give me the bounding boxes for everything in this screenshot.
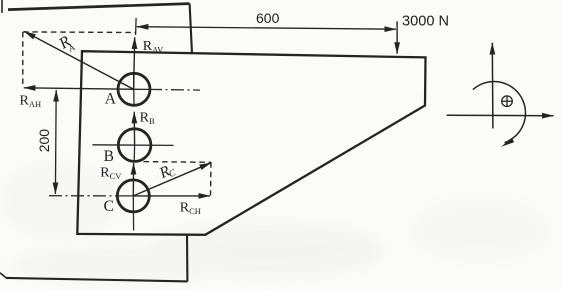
force arrow R_CV [132, 163, 134, 196]
force arrow R_AH [24, 88, 134, 90]
dashed rectangle C top [144, 161, 212, 164]
dashed rectangle A left [22, 32, 24, 87]
page edge tick top-left [1, 0, 3, 13]
svg-text:200: 200 [36, 129, 52, 153]
svg-text:B: B [104, 148, 114, 165]
sign convention vertical axis arrow [491, 43, 494, 129]
svg-text:3000 N: 3000 N [402, 14, 449, 30]
svg-text:A: A [105, 91, 117, 108]
dimension 600 line [137, 27, 396, 30]
centerline A right dash-dot [149, 88, 200, 91]
force arrow R_A [24, 31, 133, 89]
dimension 200 line [54, 90, 57, 194]
pin A [118, 73, 150, 105]
plus-circle symbol [502, 96, 513, 107]
moment arc arrowhead [501, 138, 514, 147]
centerline C vertical below [132, 196, 134, 231]
svg-text:C: C [104, 198, 114, 215]
centerline B horizontal [92, 144, 173, 147]
centerline C left dash-dot [49, 195, 117, 197]
bottom line left tail [0, 273, 7, 278]
wall top line [8, 4, 190, 10]
dashed rectangle A top [23, 31, 136, 34]
support bottom vertical [186, 235, 188, 282]
force arrow R_AV [134, 37, 135, 89]
moment arc arrow [473, 82, 526, 143]
dashed rectangle C right [210, 162, 213, 195]
support bottom line [6, 278, 187, 282]
sign convention horizontal axis arrow [447, 114, 554, 116]
pin B [118, 129, 151, 162]
wall vertical [190, 4, 192, 54]
centerline A vertical inside circle [133, 74, 135, 105]
force 3000N line [396, 21, 398, 54]
force arrow R_B [133, 112, 135, 145]
force arrow R_C [133, 163, 211, 196]
force arrow R_CH [133, 195, 210, 197]
extension line above A [135, 18, 138, 35]
centerline B vertical lower [133, 145, 135, 161]
svg-text:600: 600 [256, 10, 280, 26]
bracket plate outline [77, 51, 425, 235]
pin C [117, 180, 149, 212]
centerline A interior right [134, 88, 149, 90]
centerline C interior left [117, 195, 133, 197]
